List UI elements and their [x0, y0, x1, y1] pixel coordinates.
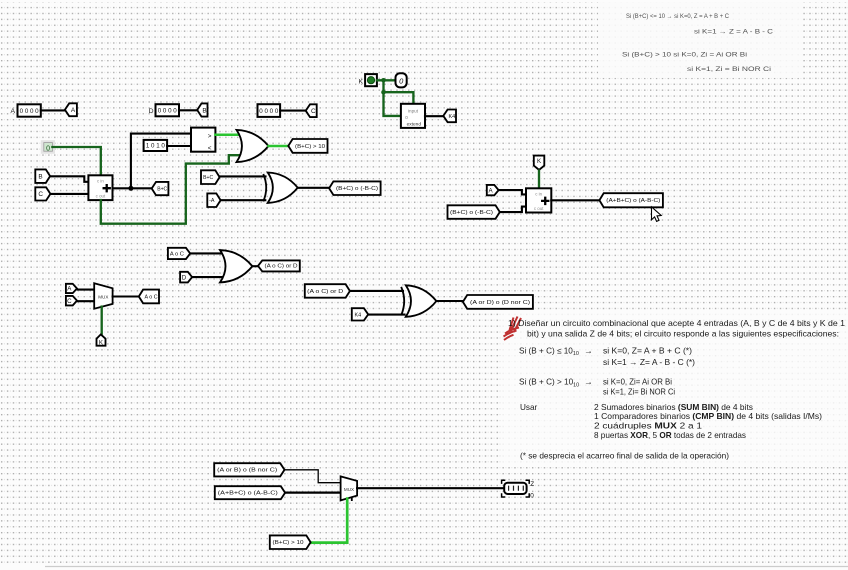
wire OR U5 output — [252, 265, 257, 267]
tunnel (B+C) o (-B-C) (xor output) — [329, 181, 381, 195]
svg-text:(A or B) o (B nor C): (A or B) o (B nor C) — [217, 468, 277, 474]
wire adder U1 carry-out to OR U3 — [101, 155, 241, 224]
svg-text:0: 0 — [46, 145, 50, 152]
wire MUX U8 output to pin Z — [357, 487, 504, 489]
svg-text:1 0 1 0: 1 0 1 0 — [146, 143, 166, 150]
svg-text:MUX: MUX — [344, 487, 354, 492]
svg-text:Z: Z — [530, 481, 534, 488]
wire K net to extender input — [384, 92, 401, 116]
wire constant 0 to adder U1 carry-in — [52, 147, 100, 175]
svg-text:extend: extend — [407, 122, 422, 128]
label K (pin K name) — [359, 79, 364, 86]
wire tunnel K to adder U10 carry-in — [538, 171, 540, 189]
svg-text:K4: K4 — [355, 312, 362, 318]
tunnel (A+B+C) o (A-B-C) (adder 2 output) — [599, 193, 663, 207]
tunnel (A+B+C) o (A-B-C) (mux input) — [215, 486, 285, 499]
wire tunnel A to adder U10 — [499, 190, 526, 194]
svg-text:A o C: A o C — [145, 294, 158, 300]
input pin B (4-bit) — [156, 104, 180, 116]
adder U1 (SUM BIN, B+C) — [88, 175, 112, 200]
wire tunnel B+C to XOR U4 — [220, 175, 265, 177]
wire adder U1 output — [113, 187, 152, 189]
svg-text:B: B — [202, 107, 206, 114]
svg-text:(B+C) o (-B-C): (B+C) o (-B-C) — [450, 210, 493, 216]
wire MUX U8 select — [311, 499, 347, 543]
wire XOR U4 output — [298, 187, 329, 189]
svg-text:0: 0 — [405, 115, 408, 120]
svg-text:si K=1 → Z= A - B - C (*): si K=1 → Z= A - B - C (*) — [603, 358, 695, 367]
tunnel K4 — [443, 110, 456, 123]
tunnel B (adder input) — [35, 169, 50, 183]
svg-text:0 0 0 0: 0 0 0 0 — [259, 108, 278, 115]
wire B+C to comparator U2 — [131, 134, 191, 189]
wire K pin to probe — [377, 79, 396, 81]
node J2 (K net junction) — [381, 90, 386, 95]
wire pin A to tunnel A — [41, 109, 64, 111]
svg-text:Si (B+C) <= 10 → si K=0, Z: Si (B+C) <= 10 → si K=0, Z = A + B + C — [626, 14, 730, 20]
tunnel (B+C) greater than 10 (mux select) — [270, 535, 311, 549]
input pin A (4-bit) — [18, 104, 41, 116]
wire MUX U7 select to tunnel K — [101, 307, 103, 334]
svg-text:0: 0 — [530, 492, 534, 499]
svg-text:C: C — [67, 298, 72, 305]
tunnel K4 (xor input) — [352, 308, 368, 320]
svg-text:si K=0, Z= A + B + C (*): si K=0, Z= A + B + C (*) — [603, 346, 692, 355]
svg-text:B+C: B+C — [203, 175, 213, 181]
svg-text:(B+C) > 10: (B+C) > 10 — [295, 144, 325, 150]
tunnel B+C (xor input) — [201, 170, 220, 184]
svg-text:C: C — [311, 108, 316, 115]
tunnel A — [65, 103, 77, 116]
adder U10 (SUM BIN, A+B+C) — [526, 188, 551, 212]
svg-text:(B+C) > 10: (B+C) > 10 — [273, 540, 304, 546]
svg-text:→: → — [584, 377, 593, 387]
wire tunnel -A to XOR U4 — [221, 199, 265, 201]
tunnel (A or D) o (D nor C) (xor output) — [463, 295, 533, 309]
input pin K (1-bit) — [365, 74, 377, 86]
tunnel (A o C) or D (or output) — [258, 260, 300, 271]
wire tunnel K4 to XOR U6 — [369, 314, 405, 316]
tunnel K (mux select) — [97, 334, 106, 346]
svg-text:C: C — [38, 191, 43, 198]
wire pin B to tunnel B — [179, 109, 197, 111]
svg-text:(B+C) o (-B-C): (B+C) o (-B-C) — [336, 186, 378, 192]
svg-text:A: A — [11, 108, 16, 115]
tunnel -A (xor input) — [207, 193, 220, 207]
svg-text:D: D — [149, 108, 154, 115]
svg-text:si K=1, Zi = Bi NOR Ci: si K=1, Zi = Bi NOR Ci — [687, 67, 771, 73]
svg-text:(A+B+C) o (A-B-C): (A+B+C) o (A-B-C) — [218, 491, 278, 497]
svg-text:1) Diseñar un circuito combina: 1) Diseñar un circuito combinacional que… — [508, 319, 845, 328]
tunnel (B+C) greater than 10 (top) — [288, 139, 327, 153]
xor-gate U4 — [263, 173, 297, 203]
wire extender output to tunnel K4 — [425, 115, 443, 117]
svg-text:-A: -A — [209, 198, 215, 204]
tunnel B — [197, 103, 207, 116]
mux U8 (MUX 2 to 1) — [341, 476, 358, 501]
svg-text:(* se desprecia el acarreo fin: (* se desprecia el acarreo final de sali… — [520, 452, 729, 461]
svg-text:0 0 0 0: 0 0 0 0 — [158, 108, 177, 115]
or-gate U5 — [220, 250, 252, 282]
svg-text:Usar: Usar — [520, 403, 538, 412]
wire tunnel B to adder U1 — [51, 176, 89, 182]
wire tunnel D to OR U5 — [193, 276, 226, 278]
svg-text:si K=1 → Z = A - B - C: si K=1 → Z = A - B - C — [694, 29, 774, 35]
tunnel C (mux input) — [66, 296, 77, 306]
svg-text:1 Comparadores binarios (CMP B: 1 Comparadores binarios (CMP BIN) de 4 b… — [594, 412, 822, 421]
svg-text:(A o C) or D: (A o C) or D — [265, 264, 298, 270]
svg-text:B: B — [38, 173, 42, 180]
wire XOR U6 output — [436, 300, 462, 302]
wire K net down — [382, 80, 384, 92]
wire tunnel A o C to OR U5 — [191, 252, 226, 254]
note: handwritten equations (top right) — [622, 14, 774, 73]
constant V2 (0, carry-in) — [41, 140, 55, 154]
svg-text:K: K — [359, 79, 364, 86]
svg-text:8 puertas XOR, 5 OR todas de 2: 8 puertas XOR, 5 OR todas de 2 entradas — [594, 431, 746, 440]
output pin Z (4-bit, selected) — [502, 480, 535, 499]
svg-text:input: input — [408, 108, 419, 113]
wire pin C to tunnel C — [280, 110, 305, 112]
svg-text:(A+B+C) o (A-B-C): (A+B+C) o (A-B-C) — [606, 198, 660, 204]
tunnel A o C (or input) — [168, 248, 190, 259]
wire tunnel C to adder U1 — [51, 193, 88, 195]
wire K net to extender top — [384, 92, 414, 104]
svg-text:MUX: MUX — [98, 295, 108, 300]
svg-text:c out: c out — [96, 194, 106, 199]
svg-text:Si (B+C) > 10 si K=0, Zi: Si (B+C) > 10 si K=0, Zi = Ai OR Bi — [622, 53, 747, 59]
tunnel (A or B) o (B nor C) (mux input) — [214, 463, 284, 476]
svg-text:A: A — [71, 107, 76, 114]
wire OR U3 output to tunnel — [269, 145, 288, 148]
wire tunnel A to MUX U7 — [78, 289, 95, 291]
node J1 (K net junction) — [381, 78, 386, 83]
svg-text:<: < — [208, 145, 212, 152]
svg-text:2 Sumadores binarios (SUM BIN): 2 Sumadores binarios (SUM BIN) de 4 bits — [594, 403, 753, 412]
label D (pin B name) — [149, 108, 154, 115]
svg-text:c in: c in — [535, 192, 542, 197]
red scribble (pen mark over title) — [504, 317, 522, 341]
tunnel A (adder 2 input) — [487, 185, 499, 195]
node J3 (B+C bus junction) — [128, 186, 133, 191]
note: problem statement text — [508, 319, 845, 461]
svg-text:A o C: A o C — [170, 251, 184, 257]
input pin C (4-bit) — [258, 104, 281, 117]
svg-text:B+C: B+C — [157, 186, 167, 192]
bit extender U9 — [401, 104, 425, 128]
probe P1 (K value) — [396, 73, 407, 87]
svg-text:>: > — [208, 133, 212, 140]
or-gate U3 — [237, 130, 269, 162]
tunnel C (adder input) — [35, 187, 50, 200]
mux U7 (MUX 2 to 1) — [94, 283, 112, 309]
label A (pin A name) — [11, 108, 16, 115]
svg-text:c in: c in — [97, 179, 104, 184]
svg-text:bit) y una salida Z de 4 bits;: bit) y una salida Z de 4 bits; el circui… — [527, 330, 839, 339]
wire tunnel C to MUX U7 — [78, 300, 95, 302]
wire constant 1010 to comparator U2 — [167, 145, 191, 147]
svg-text:(A o C) or D: (A o C) or D — [307, 289, 344, 295]
svg-text:si K=0, Zi= Ai OR Bi: si K=0, Zi= Ai OR Bi — [603, 378, 672, 387]
tunnel A o C (mux output) — [139, 290, 159, 304]
wire comparator greater-out to OR U3 — [215, 134, 239, 137]
wire MUX U7 output — [113, 295, 139, 297]
svg-text:si K=1, Zi= Bi NOR Ci: si K=1, Zi= Bi NOR Ci — [603, 387, 675, 396]
tunnel C — [306, 104, 317, 117]
svg-text:(A or D) o (D nor C): (A or D) o (D nor C) — [470, 300, 530, 306]
svg-text:c out: c out — [534, 206, 544, 211]
svg-text:2 cuádruples MUX 2 a 1: 2 cuádruples MUX 2 a 1 — [594, 422, 703, 431]
tunnel B+C (adder output) — [152, 182, 169, 195]
constant V1 (1010) — [144, 140, 168, 151]
wire tunnel to MUX U8 input 0 — [285, 470, 340, 483]
tunnel D (or input) — [180, 272, 192, 283]
cursor (mouse pointer) — [652, 207, 662, 222]
svg-text:→: → — [584, 345, 593, 355]
svg-text:K4: K4 — [449, 114, 456, 120]
tunnel (A o C) or D (xor input) — [305, 284, 350, 298]
wire tunnel (A o C) or D to XOR U6 — [351, 290, 403, 292]
svg-text:D: D — [182, 274, 187, 281]
tunnel A (mux input) — [66, 284, 77, 293]
wire tunnel to MUX U8 input 1 — [286, 492, 341, 494]
tunnel K (adder 2 carry-in) — [534, 156, 545, 170]
comparator U2 (CMP BIN) — [191, 128, 215, 152]
xor-gate U6 — [401, 285, 436, 317]
wire adder U10 output — [551, 199, 598, 201]
wire tunnel to adder U10 — [501, 207, 527, 213]
svg-text:0 0 0 0: 0 0 0 0 — [20, 108, 39, 115]
tunnel (B+C) o (-B-C) (adder 2 input) — [448, 205, 500, 219]
